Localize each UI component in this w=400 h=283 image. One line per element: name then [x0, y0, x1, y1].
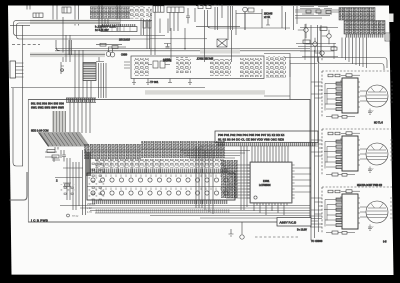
resistor grid RA401 [339, 8, 375, 21]
wire net X2 [30, 54, 105, 56]
transistor array row2 [141, 141, 225, 158]
svg-text:TP 62: TP 62 [72, 215, 79, 218]
svg-text:P00 P01 P02 P03 P04 P05 P06 P0: P00 P01 P02 P03 P04 P05 P06 P07 K1 K2 K3… [218, 133, 285, 137]
driver IC IC301 [87, 173, 235, 200]
crystal X201 [217, 39, 227, 47]
wire stub B2 [10, 24, 30, 26]
connector block CN501 [215, 131, 318, 143]
transistor Q404 [315, 51, 324, 60]
sub board annex [264, 54, 290, 78]
capacitor C101 [55, 150, 86, 215]
connector CN101 [10, 61, 24, 78]
wire bundle vertical [196, 146, 247, 214]
component row R2 [95, 159, 225, 168]
wire gap vertical 3 [318, 57, 320, 232]
pins CN501 [217, 143, 316, 147]
label column [88, 160, 105, 200]
svg-text:IC501: IC501 [263, 180, 270, 183]
wire net W [11, 87, 205, 89]
pins IC501 bottom [254, 203, 287, 205]
bus highlight vertical [52, 111, 66, 133]
wire feeds block2 [311, 140, 322, 156]
wire mesh q5 [296, 44, 336, 47]
svg-text:SW1 SW2 SW3 SW4 SW5: SW1 SW2 SW3 SW4 SW5 [31, 106, 64, 110]
wire stubs CN204 [170, 12, 178, 31]
wire drops left [75, 50, 91, 98]
diode D101 [60, 184, 75, 195]
wire drops right [342, 38, 367, 69]
svg-text:I C B PWB: I C B PWB [31, 219, 48, 223]
resistor R102 [52, 147, 61, 162]
resistor network RA201 [146, 7, 152, 18]
connector stub [121, 54, 130, 69]
svg-text:CN30: CN30 [121, 54, 128, 57]
resistor grid RA402 [344, 21, 385, 35]
wire feeds block3 [311, 198, 322, 214]
svg-text:x 12: x 12 [87, 207, 92, 210]
terminal E401 [385, 33, 390, 41]
resistor R101 [45, 150, 57, 158]
wire stubs [66, 35, 72, 62]
wire mesh q4 [300, 24, 338, 60]
wire net X1 [55, 49, 310, 51]
wire seg I [196, 14, 262, 27]
svg-text:TO CN803: TO CN803 [311, 240, 323, 243]
resistor R305 [210, 59, 231, 76]
wire risers to IC501 [252, 146, 288, 162]
transistor Q101 [86, 152, 91, 176]
svg-text:ASSY P.C.B: ASSY P.C.B [280, 221, 297, 225]
wire loop left lower [10, 172, 28, 200]
IC strip IC205 [101, 27, 137, 32]
main board outline [28, 100, 310, 223]
oscillator X301 [148, 59, 170, 69]
ground G5 [229, 229, 234, 236]
resistor R204 [96, 43, 126, 48]
resistor R110 [63, 183, 71, 187]
wire IC501 right links [295, 168, 311, 192]
connector pins P1 [66, 98, 96, 102]
board left edge [27, 100, 29, 223]
connector CN203 [198, 5, 254, 12]
wire net top-right [295, 10, 345, 18]
resistor R423 [331, 47, 337, 50]
pin row bottom [95, 209, 230, 213]
ribbon cable [38, 132, 90, 147]
transistor column Q3xx [221, 160, 238, 198]
wire gap vertical 1 [310, 25, 312, 240]
resistor ladder RA101 [83, 63, 96, 81]
servo block 3 [322, 187, 393, 234]
wire dashed [255, 236, 300, 238]
wire trunk vertical [22, 26, 24, 167]
bus highlight4 [145, 90, 265, 94]
wire loop left upper [13, 88, 23, 166]
wire loop lower [290, 25, 384, 70]
pins IC501 left [247, 165, 250, 198]
wire bundle to arrays [180, 151, 250, 159]
diode D301 [266, 56, 286, 78]
wire row links [90, 159, 160, 173]
wire corner H [208, 10, 291, 28]
wire dashed stub [12, 44, 40, 46]
capacitor C215 [186, 8, 195, 24]
svg-text:501 502 503 504 505 506: 501 502 503 504 505 506 [31, 102, 64, 106]
resistor R103 [61, 62, 65, 74]
svg-text:MECHA CONT PWB 2/2: MECHA CONT PWB 2/2 [357, 184, 383, 187]
transistor Q402 [306, 38, 317, 52]
svg-text:B+ 13.8V: B+ 13.8V [297, 229, 307, 232]
node dot [184, 48, 185, 49]
resistor R422 [320, 27, 327, 30]
wire drops from IC201 [99, 19, 108, 24]
wire gap crossing [310, 216, 322, 227]
wire bus bottom [60, 206, 310, 219]
svg-text:TP 301: TP 301 [150, 80, 159, 84]
resistor network R310 [176, 59, 191, 73]
wire drops to ribbon [70, 100, 90, 133]
svg-text:4.7K: 4.7K [87, 211, 92, 214]
wire drops right-center [205, 4, 298, 62]
wire net below CN501 [200, 145, 318, 147]
wire elbow B [17, 23, 151, 39]
transistor Q205 [96, 57, 104, 62]
node J1 [243, 7, 248, 30]
microcontroller IC501 [250, 162, 292, 203]
wire drops IC501 bottom [254, 205, 284, 215]
transistor Q301 [134, 58, 149, 76]
bus highlight2 [30, 53, 105, 58]
test point TP2 [67, 214, 79, 218]
wire branch vertical [289, 60, 291, 100]
wire drops mid [141, 19, 150, 49]
label assy box [277, 218, 311, 227]
wire vertical drops top-left [27, 6, 120, 32]
wire bus vertical [54, 111, 66, 133]
wire loop upper [284, 25, 387, 68]
servo block 1 [322, 71, 393, 118]
wire drops center [151, 12, 168, 55]
capacitor C310 [240, 58, 262, 77]
servo block 2 [322, 129, 393, 176]
svg-text:LC75853N: LC75853N [259, 184, 271, 187]
connector CN202 [153, 6, 164, 12]
bus highlight [30, 20, 120, 24]
transistor array row1 [84, 144, 141, 159]
label texts col [87, 203, 96, 214]
wire elbow A [14, 21, 166, 36]
pins IC301 bottom [92, 200, 228, 204]
pins IC501 right [292, 165, 295, 198]
connector CN204 [167, 7, 184, 12]
ticks IC301 mid [96, 188, 231, 191]
capacitor C102 [62, 150, 66, 162]
wire gap vertical 2 [314, 50, 316, 238]
svg-text:25C1815: 25C1815 [119, 38, 130, 42]
IC array IC201 [90, 7, 130, 19]
capacitor C203 [106, 48, 115, 57]
connector CN205 [33, 13, 43, 17]
wire drops right of ladder [99, 63, 107, 98]
connector CN201 [62, 7, 71, 13]
svg-text:4.19M: 4.19M [163, 59, 170, 62]
resistor R210 [143, 21, 151, 28]
bus highlight3 [200, 50, 240, 54]
wire corner U [56, 40, 60, 51]
transistor Q401 [298, 24, 308, 38]
wire comb left of IC501 [222, 165, 250, 198]
transistor labels [264, 13, 273, 26]
wire drop E [62, 17, 64, 62]
pins RA402 [345, 34, 384, 38]
resistor R421 [303, 40, 310, 43]
wire net Y [150, 38, 207, 40]
svg-text:NO TL-5: NO TL-5 [374, 123, 383, 125]
test point TP5 [240, 222, 244, 239]
wire feeds block1 [311, 82, 322, 98]
transistor Q403 [322, 30, 331, 44]
svg-text:S1 S2 S3 S4 DO CL CE INH VDD V: S1 S2 S3 S4 DO CL CE INH VDD VSS OSC RES [218, 138, 284, 142]
capacitor C220 [164, 44, 171, 48]
wire drop F [171, 28, 185, 62]
sub board box [131, 56, 264, 79]
page sheet [389, 14, 394, 23]
pins IC205 top [102, 24, 136, 27]
wire dashes top [196, 4, 219, 7]
svg-text:x2 1K: x2 1K [264, 16, 271, 19]
wire dashes G [176, 58, 215, 60]
top bits TR [300, 7, 332, 15]
ground row [132, 79, 192, 85]
pins IC301 top [90, 169, 228, 174]
IC array IC202 [130, 7, 145, 19]
wire seg annex [264, 95, 290, 97]
ticks IC301 interior [96, 175, 231, 178]
